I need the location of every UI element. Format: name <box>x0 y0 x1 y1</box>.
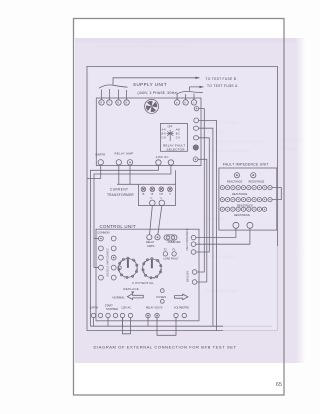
svg-text:VOLTMETRE: VOLTMETRE <box>174 307 189 310</box>
terminal b <box>183 100 188 105</box>
supply unit box <box>96 98 201 166</box>
FIU knob resistance <box>251 173 256 178</box>
svg-text:OFF: OFF <box>168 126 173 129</box>
common terminal row1 right <box>111 236 116 241</box>
CT terminal N <box>168 187 173 192</box>
svg-text:EARTH: EARTH <box>96 152 106 156</box>
terminal a <box>174 100 179 105</box>
dial V potential 2 <box>142 258 162 279</box>
current transformer box <box>138 184 175 205</box>
FIU output terminal X <box>233 222 239 228</box>
terminal letters RYBN <box>100 101 195 105</box>
right column terminal t2 <box>194 118 199 123</box>
terminal N <box>124 100 129 105</box>
switch blade row right <box>177 91 204 94</box>
svg-text:LOAD FAULT: LOAD FAULT <box>163 257 179 260</box>
common terminal row2 right <box>111 246 116 251</box>
svg-text:R: R <box>100 101 102 105</box>
svg-text:N: N <box>125 101 127 105</box>
svg-text:C-A: C-A <box>176 136 181 139</box>
wire drop a <box>176 95 178 100</box>
right column terminal t6 <box>193 157 198 162</box>
right column terminal t3 <box>193 126 198 130</box>
scan lavender area <box>75 38 296 363</box>
scan top edge shading <box>75 38 296 43</box>
svg-text:CONTROL UNIT: CONTROL UNIT <box>100 224 136 229</box>
svg-text:AMMETER: AMMETER <box>168 240 181 244</box>
svg-text:115V AC: 115V AC <box>156 155 169 159</box>
wire common stub 1 <box>94 238 98 240</box>
svg-text:A-B: A-B <box>176 128 180 131</box>
FIU reactance row terminals <box>220 186 272 190</box>
common terminal row4 right <box>111 265 116 270</box>
svg-text:RELAY: RELAY <box>146 240 155 244</box>
replace pointer mark <box>131 292 135 294</box>
CT secondary terminal T1 <box>159 200 165 206</box>
terminal c <box>191 100 196 105</box>
arrow normal (left) <box>127 294 143 300</box>
schematic text labels <box>90 77 269 311</box>
svg-text:na samp batana: na samp batana <box>205 254 236 259</box>
terminal 115v ac 2 <box>168 160 173 165</box>
bottom terminal start <box>98 313 102 317</box>
wire inner bottom bus <box>90 325 223 327</box>
ammeter M <box>164 235 177 240</box>
svg-text:FUSES: FUSES <box>156 295 166 299</box>
svg-text:TO TEST FUSE A: TO TEST FUSE A <box>207 84 238 88</box>
svg-text:REACTANCE: REACTANCE <box>227 181 243 184</box>
bottom terminal stop <box>106 313 110 317</box>
svg-text:RESISTANCE: RESISTANCE <box>249 181 265 184</box>
right column terminal t1 <box>194 106 198 110</box>
svg-text:65: 65 <box>276 382 282 388</box>
wire drop B <box>117 90 119 100</box>
relay fault selector box <box>161 124 188 152</box>
relay amps terminal 1 <box>147 235 152 240</box>
label selector positions left <box>162 126 181 140</box>
wire relay volts stub down <box>147 318 149 327</box>
wire bundle w5 <box>197 159 207 282</box>
wire drop c <box>193 94 195 100</box>
common terminal row2 left <box>99 246 104 251</box>
scan lighter interior <box>89 68 276 329</box>
svg-text:CURRENT: CURRENT <box>110 188 128 192</box>
wire common stub 2 <box>94 267 98 269</box>
common terminal row5 right <box>111 275 116 280</box>
terminal relay amp 1 <box>116 160 121 165</box>
bottom terminal earth <box>91 313 95 317</box>
svg-text:RESISTANCE: RESISTANCE <box>237 204 253 207</box>
arrow fuses (right) <box>175 294 188 300</box>
wire drop b <box>185 94 187 100</box>
wire FIU X to control unit <box>196 228 236 237</box>
svg-text:V POTENTIAL: V POTENTIAL <box>132 281 154 285</box>
schematic drawing <box>87 66 281 335</box>
bottom terminal 115v 1 <box>120 313 124 317</box>
selector S1 radial lines <box>167 130 174 141</box>
wire staple aux to 115v <box>123 318 131 334</box>
wire FIU right bracket <box>272 188 281 200</box>
dial 1 numbers <box>119 260 163 280</box>
svg-text:SELECTOR: SELECTOR <box>167 147 186 151</box>
fuse holder top <box>160 289 164 293</box>
label CT taps <box>142 192 171 200</box>
wire 115v ac run B <box>94 165 171 267</box>
wire earth stub down <box>93 318 95 327</box>
svg-text:RELAY VOLTS: RELAY VOLTS <box>146 307 163 310</box>
wire 115v ac run A <box>90 165 158 326</box>
fuse holder bottom <box>160 300 164 304</box>
bottom terminal aux <box>113 313 117 317</box>
FIU output terminal R <box>247 222 253 228</box>
common terminal row3 left <box>99 255 104 260</box>
svg-text:da pada samasa: da pada samasa <box>205 288 237 293</box>
wire FIU R to control unit <box>196 228 250 244</box>
bottom terminal relay volts 1 <box>146 313 150 317</box>
wire inner bottom bus faded <box>223 325 272 327</box>
load fault terminal F2 <box>163 252 167 256</box>
control right terminal r1 <box>191 235 196 240</box>
common terminal row4 left <box>99 265 104 270</box>
dial V potential 1 <box>118 257 138 278</box>
control unit box <box>96 229 199 321</box>
svg-text:DOUBLE IMPEDANCE: DOUBLE IMPEDANCE <box>106 248 109 277</box>
svg-text:10A: 10A <box>159 192 163 195</box>
svg-text:DIAGRAM OF EXTERNAL CONNECT: DIAGRAM OF EXTERNAL CONNECTION FOR BFB T… <box>94 345 237 350</box>
outer border rectangle <box>87 66 277 330</box>
common terminal row5 left <box>99 275 104 280</box>
svg-text:COMMON: COMMON <box>97 230 109 234</box>
terminal relay amp 2 <box>127 160 132 165</box>
svg-text:ya de dana kemlan datai bagian: ya de dana kemlan datai bagian schematic… <box>96 43 185 48</box>
fan blower M1 <box>145 99 159 113</box>
svg-text:STOPPER: STOPPER <box>106 308 118 311</box>
fault impedance unit box <box>219 168 277 230</box>
right column terminal t5 filled <box>193 145 198 150</box>
svg-text:KW & KVY: KW & KVY <box>187 270 190 282</box>
terminal earth E1 <box>98 160 103 165</box>
wire drop R <box>101 90 103 100</box>
faint bleed-through text <box>96 43 302 293</box>
common terminal row4 extra <box>118 266 121 269</box>
wire bundle w4 <box>196 138 209 252</box>
terminal Y <box>107 100 112 105</box>
svg-text:nsa atani dan bata, dlam mas: nsa atani dan bata, dlam mas <box>210 139 265 144</box>
outer border faded segments <box>223 246 277 331</box>
wire drop N <box>126 90 128 100</box>
page sheet <box>74 19 285 396</box>
svg-text:FAULT IMPEDANCE: FAULT IMPEDANCE <box>186 228 189 250</box>
FIU resistance row terminals <box>220 198 272 202</box>
arrow to test fuse B <box>196 77 200 79</box>
load fault terminal F1 <box>172 252 176 256</box>
svg-text:EARTH: EARTH <box>90 307 99 310</box>
svg-text:REPLACE: REPLACE <box>123 287 139 291</box>
wire stopper stub down <box>107 318 109 327</box>
svg-text:RELAY AMP: RELAY AMP <box>115 152 134 156</box>
wire CT riser <box>175 170 177 184</box>
page border frame <box>74 19 285 396</box>
wire earth to border <box>87 165 101 179</box>
switch blade row left <box>99 85 128 88</box>
control right terminal r2 <box>191 242 196 247</box>
FIU resistance row 2 terminals <box>220 207 266 211</box>
wire 115v stub down <box>122 318 124 327</box>
svg-text:(440V, 3 PHASE ,50Hz): (440V, 3 PHASE ,50Hz) <box>138 91 178 95</box>
wire bundle w1 <box>197 109 204 272</box>
svg-text:pa atampa: pa atampa <box>205 216 225 221</box>
wire drop Y <box>108 89 110 100</box>
bottom terminal voltmeter 1 <box>174 313 178 317</box>
CT terminal 5A <box>150 187 155 192</box>
svg-text:B: B <box>117 101 119 105</box>
wire staple relay volts to voltmeter <box>157 318 176 336</box>
svg-text:B-N: B-N <box>162 132 166 135</box>
svg-text:na dan mel: na dan mel <box>281 137 302 142</box>
common terminal row3 right <box>111 255 116 260</box>
svg-text:SUPPLY UNIT: SUPPLY UNIT <box>133 82 167 87</box>
CT secondary terminal T2 <box>150 200 156 206</box>
bottom terminal relay volts 2 <box>155 313 159 317</box>
arrow to test fuse A <box>200 86 204 88</box>
control right terminal r5 <box>192 280 197 285</box>
wire: riser to fuse A arrow <box>190 87 204 91</box>
FIU knob reactance <box>234 173 239 178</box>
terminal 115v ac 1 <box>156 160 161 165</box>
svg-text:115V AC: 115V AC <box>121 307 131 310</box>
svg-text:TRANSFORMER: TRANSFORMER <box>107 193 134 197</box>
CT terminal 1A <box>141 187 146 192</box>
bottom terminal 115v 2 <box>128 313 132 317</box>
terminal R <box>99 100 104 105</box>
svg-text:A-N: A-N <box>162 128 166 131</box>
svg-text:REACTANCE: REACTANCE <box>232 193 248 196</box>
svg-text:AMPS: AMPS <box>147 244 155 248</box>
control right terminal r3 <box>191 250 196 255</box>
common terminal row1 left <box>99 236 104 241</box>
svg-text:NORMAL: NORMAL <box>112 296 125 300</box>
svg-text:B-C: B-C <box>176 132 180 135</box>
wire bundle w3 <box>199 128 213 326</box>
svg-text:C-N: C-N <box>162 136 167 139</box>
svg-text:FAULT IMPEDENCE UNIT: FAULT IMPEDENCE UNIT <box>223 163 269 167</box>
svg-text:Y: Y <box>108 101 110 105</box>
svg-text:ke samp: ke samp <box>281 146 297 151</box>
CT terminal 10A <box>159 187 164 192</box>
relay amps terminal 2 <box>155 235 160 240</box>
wire relay amp drops <box>117 165 138 184</box>
bottom terminal voltmeter 2 <box>182 313 186 317</box>
svg-text:TO TEST FUSE B: TO TEST FUSE B <box>206 77 237 81</box>
wire CT to relay amps 2 <box>158 206 162 235</box>
wire CT to relay amps 1 <box>150 206 153 235</box>
control right terminal r4 <box>192 270 197 275</box>
wire: top supply bus <box>113 78 200 85</box>
right column terminal t4 <box>193 136 198 140</box>
svg-text:RESISTANCE: RESISTANCE <box>234 214 250 217</box>
wire bundle w2 <box>199 120 217 330</box>
terminal B <box>116 100 121 105</box>
